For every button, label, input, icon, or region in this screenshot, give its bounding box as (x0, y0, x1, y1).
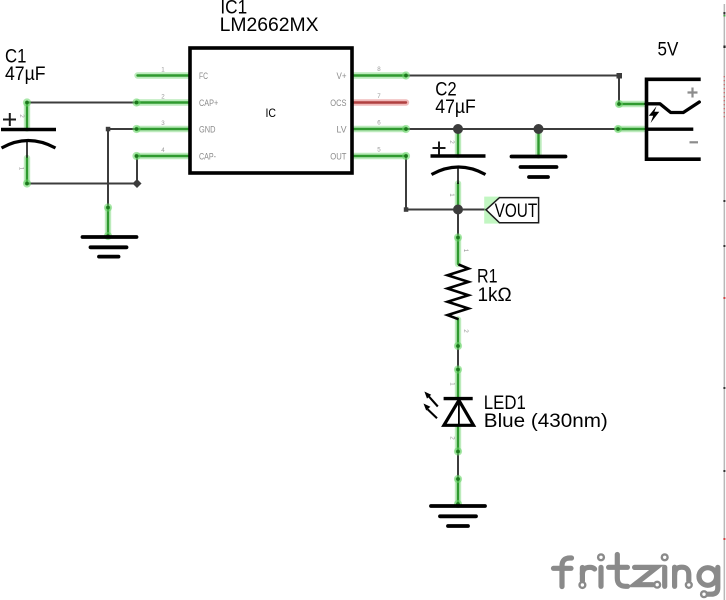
svg-text:LV: LV (337, 124, 348, 135)
svg-text:6: 6 (377, 120, 381, 127)
svg-text:1: 1 (462, 249, 469, 253)
svg-text:IC: IC (266, 106, 277, 120)
svg-text:1kΩ: 1kΩ (478, 285, 512, 306)
svg-text:7: 7 (377, 93, 381, 100)
svg-text:4: 4 (161, 147, 165, 154)
svg-text:2: 2 (462, 329, 469, 333)
svg-text:47µF: 47µF (5, 64, 46, 85)
svg-text:CAP-: CAP- (199, 151, 216, 162)
svg-text:2: 2 (18, 114, 25, 118)
svg-text:3: 3 (161, 120, 165, 127)
svg-text:1: 1 (161, 67, 165, 74)
svg-text:8: 8 (377, 66, 381, 73)
svg-text:OUT: OUT (330, 151, 346, 162)
svg-text:GND: GND (199, 124, 216, 135)
svg-text:2: 2 (449, 436, 456, 440)
svg-text:5V: 5V (658, 40, 679, 61)
svg-text:FC: FC (199, 71, 208, 82)
svg-text:OCS: OCS (330, 98, 346, 109)
svg-text:2: 2 (448, 140, 455, 144)
svg-text:47µF: 47µF (435, 97, 476, 118)
svg-text:1: 1 (448, 193, 455, 197)
svg-text:1: 1 (18, 167, 25, 171)
svg-text:2: 2 (161, 94, 165, 101)
svg-text:V+: V+ (337, 71, 347, 82)
svg-text:VOUT: VOUT (495, 201, 538, 222)
svg-text:Blue (430nm): Blue (430nm) (484, 411, 608, 432)
svg-text:CAP+: CAP+ (199, 98, 218, 109)
svg-text:LM2662MX: LM2662MX (220, 15, 319, 36)
svg-text:1: 1 (449, 382, 456, 386)
svg-text:5: 5 (377, 147, 381, 154)
